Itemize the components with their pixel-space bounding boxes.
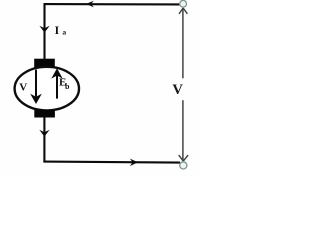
voltage line upper segment <box>182 8 184 78</box>
svg-text:a: a <box>62 28 66 37</box>
svg-text:V: V <box>19 81 27 93</box>
wire left vertical lower <box>43 117 45 163</box>
voltage arrowhead up (at top terminal) <box>179 8 187 14</box>
current arrow on bottom wire (pointing right) <box>130 159 138 167</box>
voltage arrowhead down (at bottom terminal) <box>179 155 188 161</box>
terminal (bottom-right open circle) <box>180 162 187 169</box>
svg-text:V: V <box>172 82 183 98</box>
svg-text:b: b <box>65 82 70 91</box>
current arrow Ia (pointing down) <box>39 26 49 33</box>
wire bottom horizontal <box>43 162 180 163</box>
arrow Eb inside motor (pointing up) <box>56 76 58 99</box>
terminal (top-right open circle) <box>180 0 187 7</box>
arrow V inside motor (pointing down) <box>35 70 37 97</box>
current arrow lower-left (pointing down) <box>39 130 49 137</box>
voltage line lower segment <box>182 100 184 161</box>
svg-text:I: I <box>55 24 60 37</box>
motor armature (ellipse) <box>15 67 79 111</box>
brush (top black rectangle) <box>34 59 55 68</box>
wire left vertical upper <box>43 3 45 59</box>
wire top horizontal <box>44 3 180 5</box>
brush (bottom black rectangle) <box>34 110 55 118</box>
current arrow on top wire (pointing left) <box>86 1 94 8</box>
